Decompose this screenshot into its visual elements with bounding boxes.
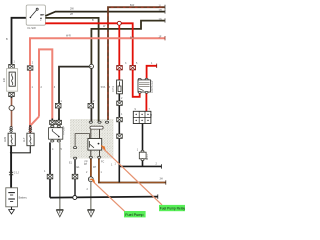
svg-text:1I: 1I xyxy=(159,4,161,7)
wire: red drop V119.5 xyxy=(118,25,120,66)
wire end tick 1F (H_sal) xyxy=(164,36,166,40)
ECU internal capsule xyxy=(90,126,103,129)
ring connector on left chain xyxy=(9,106,14,111)
svg-text:EFI: EFI xyxy=(2,78,6,82)
pump assembly connectors above box xyxy=(50,118,62,124)
fuel pump switch box xyxy=(49,125,66,142)
connector X on salmon V30 xyxy=(27,66,33,70)
connector X on V75 xyxy=(72,174,78,179)
battery BT1 xyxy=(6,188,28,207)
svg-text:1: 1 xyxy=(44,170,46,173)
svg-text:4: 4 xyxy=(52,148,54,151)
svg-text:2: 2 xyxy=(156,162,158,165)
svg-text:1G: 1G xyxy=(159,18,162,21)
svg-text:STA: STA xyxy=(101,86,106,89)
wire: salmon jog (inverted U) xyxy=(39,49,52,119)
svg-text:1H: 1H xyxy=(159,9,162,12)
wire H3: dark olive from switch, drops at x=99.5 into ECU xyxy=(45,18,98,121)
connector on battery feed xyxy=(9,170,19,176)
wire end tick 1H (H2) xyxy=(164,9,166,13)
wire: V91 below J1 to ECU xyxy=(90,69,92,104)
svg-text:B-Y: B-Y xyxy=(130,37,135,40)
svg-text:2: 2 xyxy=(87,188,89,191)
label: Fuel Pump Relay xyxy=(159,205,185,211)
wire: J1 left branch to V58.2 xyxy=(59,67,89,103)
svg-text:5: 5 xyxy=(61,148,63,151)
wire: gray pump to ground xyxy=(90,182,92,210)
svg-text:FP: FP xyxy=(93,166,97,169)
svg-text:E1: E1 xyxy=(77,166,81,169)
junction on red wire xyxy=(117,21,121,25)
connector X on V91 xyxy=(88,103,94,108)
wire H_red: red from switch xyxy=(45,23,132,65)
svg-text:Battery: Battery xyxy=(19,196,28,200)
svg-text:1: 1 xyxy=(32,86,34,89)
wire H_sal: salmon from corner x30 to right end xyxy=(30,38,165,116)
svg-text:9: 9 xyxy=(135,108,137,111)
svg-text:5: 5 xyxy=(136,62,138,65)
ground: battery xyxy=(9,207,15,214)
svg-text:2W: 2W xyxy=(70,8,74,11)
svg-text:1: 1 xyxy=(121,113,123,116)
wire S: dark step wire from right end to junction J1 xyxy=(91,21,165,65)
svg-text:DLC1: DLC1 xyxy=(147,153,149,160)
svg-text:FC: FC xyxy=(101,161,104,164)
svg-text:2: 2 xyxy=(41,86,43,89)
svg-text:1: 1 xyxy=(60,100,62,103)
fuel pump resistor on V119.5 xyxy=(112,80,122,94)
svg-text:1: 1 xyxy=(101,171,103,174)
svg-text:IG: IG xyxy=(40,13,43,17)
wire: black pump box left leg down xyxy=(49,142,51,197)
svg-text:E1: E1 xyxy=(69,162,73,165)
svg-text:2: 2 xyxy=(121,97,123,100)
wire: ignition switch feed, black, to left fuse chain xyxy=(12,18,28,63)
connector X on red V119.5 xyxy=(117,66,123,70)
svg-text:1: 1 xyxy=(151,62,153,65)
svg-text:W-R: W-R xyxy=(66,35,71,38)
wire: right fuse column joins left xyxy=(11,146,30,153)
svg-text:FP: FP xyxy=(85,161,88,164)
ECU internal wires xyxy=(91,129,100,138)
svg-text:B-R: B-R xyxy=(130,4,135,7)
wire: brown-salmon below fuse to lower chain xyxy=(11,98,13,127)
label: Fuel Pump xyxy=(124,211,146,217)
connector X on black leg xyxy=(47,174,53,179)
connector below EFI fuse xyxy=(9,92,15,98)
svg-text:1: 1 xyxy=(115,163,117,166)
svg-text:AM2: AM2 xyxy=(4,136,7,142)
svg-text:1: 1 xyxy=(137,149,139,152)
svg-text:B: B xyxy=(6,38,8,41)
svg-text:B: B xyxy=(92,19,94,22)
ECU internal oval terminal xyxy=(74,147,77,149)
ECU exit wires xyxy=(91,150,100,157)
svg-text:IG SW: IG SW xyxy=(28,26,37,30)
wire: brown V99 ECU to H_br xyxy=(99,159,166,183)
svg-text:F/PUMP: F/PUMP xyxy=(63,126,66,135)
wire: brown V91 ECU to fuel pump xyxy=(90,159,92,177)
fuse ALT (right) xyxy=(23,132,34,146)
fuse EFI xyxy=(2,69,18,92)
svg-text:3H: 3H xyxy=(160,178,163,181)
junction J1 xyxy=(89,64,93,68)
svg-text:B: B xyxy=(108,86,110,89)
annotation: callout to fuel pump relay xyxy=(102,148,162,205)
svg-text:2H: 2H xyxy=(70,13,73,16)
svg-text:F10: F10 xyxy=(150,113,153,118)
wire: V75 ECU down to bus junction xyxy=(74,160,76,197)
connector X's on V119.5 black xyxy=(117,101,123,105)
svg-text:7: 7 xyxy=(149,108,151,111)
fuel pump motor M1 xyxy=(88,177,93,182)
relay R1 (circuit opening relay) xyxy=(138,78,154,93)
ECU internal box (driver) xyxy=(88,139,102,151)
svg-text:W: W xyxy=(103,25,106,28)
wire end tick 3H (H_br) xyxy=(165,180,167,184)
connector X on red V132.7 xyxy=(130,66,136,70)
wire: red V132.7 to relay bottom-left xyxy=(133,70,140,97)
wire: red relay top-right up and to end xyxy=(147,66,157,79)
wire: salmon merge into lower fuse column xyxy=(30,117,39,134)
svg-text:1: 1 xyxy=(14,61,16,64)
wire: left fuse column down to battery xyxy=(10,146,12,188)
ECU block (stippled) xyxy=(70,119,114,159)
svg-text:Fuel Pump Relay: Fuel Pump Relay xyxy=(160,207,186,211)
wire: black below resistor xyxy=(118,94,120,183)
svg-text:F/P R: F/P R xyxy=(112,86,115,92)
svg-text:2: 2 xyxy=(32,62,34,65)
lower fuse pair: connectors xyxy=(9,127,32,132)
ECU entry ovals xyxy=(89,121,92,123)
check connector box xyxy=(139,150,149,160)
ground: fuel pump xyxy=(87,210,94,217)
wire end tick 1G (S) xyxy=(164,18,166,22)
svg-text:1F: 1F xyxy=(159,36,162,39)
svg-text:1: 1 xyxy=(111,163,113,166)
svg-text:2: 2 xyxy=(93,100,95,103)
svg-text:C/OPN RLY: C/OPN RLY xyxy=(151,80,154,93)
wire H2: black from switch to right end xyxy=(45,12,165,16)
svg-text:3: 3 xyxy=(54,86,56,89)
ignition switch SW1 box xyxy=(26,5,45,30)
svg-text:ALT: ALT xyxy=(23,137,26,142)
ground: pump box xyxy=(56,210,63,217)
connector grid GC1 xyxy=(133,111,153,123)
junction circle on bus xyxy=(73,196,77,200)
wire H1: brown from x=107 to right end xyxy=(108,7,165,120)
wire: bottom ground bus xyxy=(50,197,158,198)
annotation: callout to fuel pump xyxy=(92,181,124,211)
connector X on V58.2 xyxy=(55,103,61,108)
wire end tick 1I (H1) xyxy=(164,5,166,9)
svg-text:2 1J: 2 1J xyxy=(14,172,19,175)
svg-text:3: 3 xyxy=(125,62,127,65)
fuse AM2 (left) xyxy=(4,132,15,146)
svg-text:Fuel Pump: Fuel Pump xyxy=(125,213,143,217)
wire: red relay bottom-right down to connector grid xyxy=(145,93,147,112)
wire: black from grid down through check connector xyxy=(142,124,144,167)
left chain: connector above EFI fuse xyxy=(9,62,15,68)
bus end tick xyxy=(157,194,159,198)
wire: gray pump box right leg to ground xyxy=(59,142,61,209)
svg-text:2: 2 xyxy=(86,171,88,174)
